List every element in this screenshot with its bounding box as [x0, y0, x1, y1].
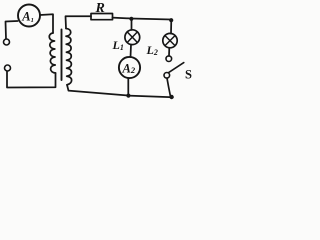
terminal T1 (top-left) — [4, 39, 10, 45]
lamp L2 bottom lead — [168, 48, 170, 56]
resistor R body — [91, 14, 113, 20]
junction dot J1 — [129, 17, 133, 21]
lamp L2 — [163, 33, 177, 47]
terminal T2 (bottom-left) — [5, 65, 11, 71]
ammeter A2 — [119, 57, 140, 78]
wire secondary top lead to resistor — [66, 16, 92, 28]
svg-text:R: R — [95, 1, 105, 16]
lamp L1 bottom lead to A2 — [130, 45, 133, 57]
bottom rail — [67, 85, 173, 97]
wire top rail J1 to corner — [131, 19, 171, 34]
switch S bottom contact — [164, 73, 170, 79]
junction dot bottom right end — [169, 95, 173, 99]
switch bottom lead — [167, 78, 171, 97]
A2 bottom lead — [127, 78, 129, 96]
transformer core — [61, 30, 63, 81]
junction dot top-right corner — [169, 18, 173, 22]
switch S blade — [169, 63, 184, 73]
wire A1 to transformer primary top — [40, 14, 53, 33]
transformer primary coil — [49, 33, 55, 73]
lamp L1 top lead — [131, 19, 133, 30]
wire T1 to A1 — [6, 21, 18, 39]
ammeter A1 — [18, 5, 40, 27]
transformer secondary coil — [66, 29, 72, 85]
junction dot bottom A2 — [126, 94, 130, 98]
svg-text:S: S — [185, 68, 192, 82]
lamp L1 — [125, 30, 140, 45]
wire resistor to node J1 — [113, 17, 132, 20]
switch S top contact — [166, 56, 172, 62]
wire primary bottom lead — [7, 72, 56, 88]
